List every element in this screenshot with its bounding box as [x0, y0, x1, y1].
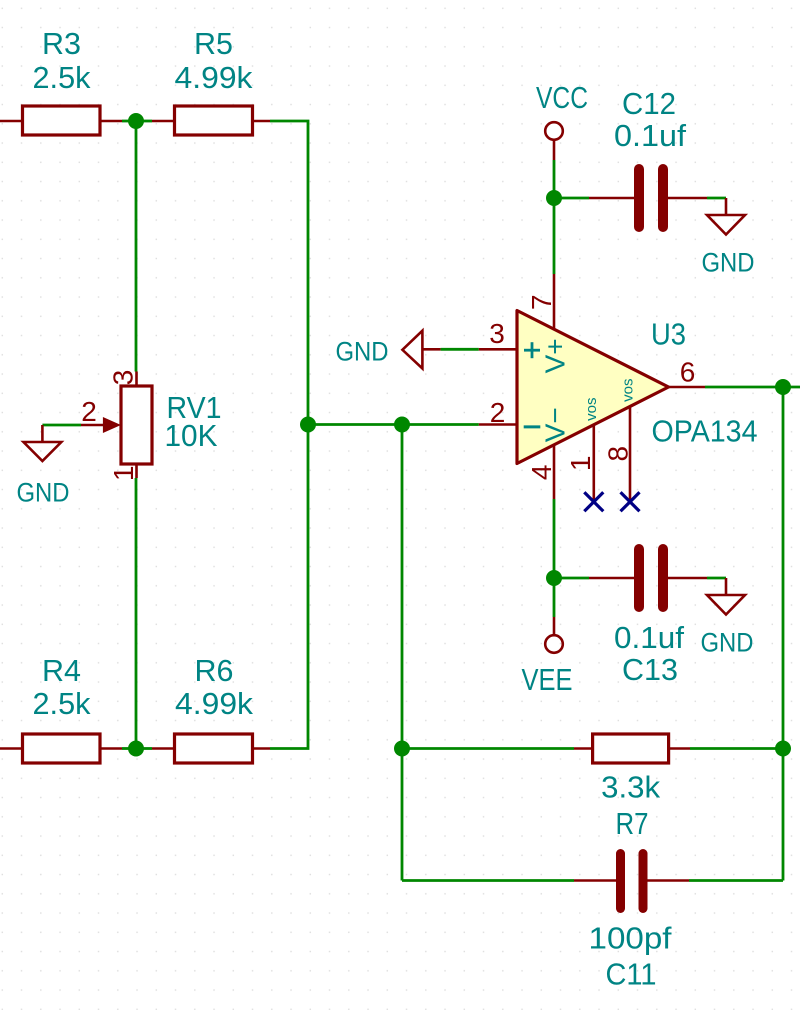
wire junction to opamp pin7: [553, 198, 556, 274]
svg-text:4: 4: [526, 465, 557, 481]
resistor R4: [23, 653, 123, 763]
wire opamp pin4 down to VEE junction: [553, 499, 556, 617]
svg-text:R3: R3: [42, 26, 81, 61]
resistor R5: [152, 26, 270, 135]
wire output to right edge: [783, 386, 800, 389]
svg-text:C12: C12: [622, 86, 676, 121]
svg-text:V−: V−: [540, 407, 571, 442]
power VEE: [522, 617, 573, 697]
svg-text:2: 2: [490, 397, 506, 428]
wire junction to C12: [554, 197, 589, 200]
svg-text:GND: GND: [701, 628, 754, 658]
svg-text:vos: vos: [620, 379, 637, 402]
capacitor C11: [574, 854, 689, 992]
svg-text:3: 3: [108, 370, 139, 386]
svg-text:1: 1: [108, 466, 139, 482]
svg-text:2.5k: 2.5k: [33, 686, 91, 721]
svg-text:8: 8: [603, 446, 634, 462]
node D junction: [394, 417, 410, 433]
wire junction D to opamp pin2: [402, 423, 479, 426]
svg-text:vos: vos: [583, 398, 600, 421]
wire opamp output to junction: [705, 386, 783, 389]
svg-text:VEE: VEE: [522, 662, 573, 697]
wire RV1 pin1 down to junction B: [135, 478, 138, 749]
svg-text:VCC: VCC: [536, 80, 588, 115]
wire C12 to GND: [707, 197, 726, 200]
wire junction C to junction D: [308, 423, 402, 426]
resistor R3: [23, 26, 123, 135]
wire C11 loop left: [402, 879, 574, 882]
svg-text:0.1uf: 0.1uf: [614, 118, 686, 153]
wire right rail down: [782, 387, 785, 881]
wire R6 right up to junction C: [270, 425, 308, 749]
wire GND flag to pin3: [423, 348, 441, 351]
svg-text:4.99k: 4.99k: [175, 60, 254, 95]
wire R5 right to corner: [270, 121, 308, 425]
svg-text:OPA134: OPA134: [652, 414, 758, 449]
resistor R7: [574, 734, 690, 841]
svg-text:U3: U3: [651, 317, 686, 352]
ground flag at opamp pin3: [336, 331, 423, 369]
node B junction R4/R6: [128, 741, 144, 757]
svg-text:0.1uf: 0.1uf: [614, 620, 684, 655]
node VEE junction: [546, 570, 562, 586]
svg-text:C13: C13: [622, 652, 678, 687]
ground symbol at RV1 wiper: [17, 425, 70, 508]
capacitor C13: [589, 549, 707, 687]
svg-text:1: 1: [565, 456, 596, 472]
ground symbol at C12: [702, 215, 755, 278]
svg-text:2.5k: 2.5k: [33, 60, 91, 95]
svg-text:R6: R6: [195, 653, 234, 688]
- marker: [524, 425, 541, 428]
wire top rail left entering R3: [0, 120, 23, 123]
ground symbol at C13: [701, 595, 754, 658]
wire R4 to junction B: [122, 747, 136, 750]
svg-text:R4: R4: [42, 653, 81, 688]
wire R3 to junction A: [122, 120, 136, 123]
potentiometer RV1: [81, 370, 222, 481]
op-amp U3: [479, 274, 758, 500]
svg-text:3: 3: [489, 318, 505, 349]
no-connect X pin1: [584, 492, 603, 511]
wire junction A to R5: [136, 120, 152, 123]
no-connect X pin8: [621, 492, 640, 511]
svg-text:6: 6: [680, 357, 696, 388]
svg-text:100pf: 100pf: [589, 921, 672, 956]
wire C13 to GND: [707, 577, 726, 580]
svg-text:V+: V+: [540, 338, 571, 373]
node C junction: [300, 417, 316, 433]
+ marker: [524, 342, 540, 358]
wire vertical from A down to RV1: [135, 121, 138, 372]
node output junction: [775, 379, 791, 395]
node E junction R7 left: [394, 741, 410, 757]
wire bottom rail left entering R4: [0, 747, 23, 750]
wire junction to C13: [554, 577, 589, 580]
wire vertical D down to E and C11: [401, 425, 404, 881]
wire E to R7: [402, 747, 574, 750]
svg-text:R7: R7: [616, 806, 649, 841]
svg-text:2: 2: [81, 396, 97, 427]
wire wiper to GND corner: [42, 424, 81, 427]
node A junction R3/R5: [128, 113, 144, 129]
capacitor C12: [589, 86, 707, 227]
node VCC junction: [546, 190, 562, 206]
wire R7 to right junction: [690, 747, 783, 750]
wire C11 right up: [689, 879, 783, 882]
svg-text:GND: GND: [17, 478, 70, 508]
wire junction B to R6: [136, 747, 152, 750]
svg-text:C11: C11: [606, 957, 657, 992]
wire VCC to junction: [553, 160, 556, 198]
svg-text:GND: GND: [702, 248, 755, 278]
svg-text:10K: 10K: [165, 418, 218, 453]
svg-text:R5: R5: [194, 26, 233, 61]
svg-text:GND: GND: [336, 337, 389, 367]
svg-text:7: 7: [526, 294, 557, 310]
svg-text:3.3k: 3.3k: [601, 770, 660, 805]
node R7 right junction: [775, 741, 791, 757]
resistor R6: [152, 653, 270, 763]
power VCC: [536, 80, 588, 160]
svg-text:4.99k: 4.99k: [175, 686, 254, 721]
